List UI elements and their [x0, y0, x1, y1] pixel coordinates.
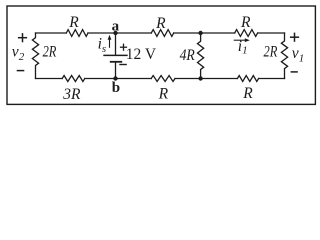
- wire R to bottom junction: [175, 78, 201, 80]
- wire R to top-right corner: [258, 32, 285, 34]
- svg-text:R: R: [155, 15, 166, 32]
- plus sign of v1: [290, 33, 299, 42]
- resistor R (bottom right): [237, 76, 258, 82]
- resistor R (top left): [66, 30, 88, 37]
- wire bottom junction to R (bottom right): [201, 78, 238, 80]
- wire bottom rail: left corner to 3R: [36, 78, 63, 80]
- svg-text:R: R: [242, 85, 253, 102]
- plus sign of v2: [18, 33, 27, 42]
- node b junction dot: [113, 76, 117, 80]
- resistor 2R (right branch with leads): [281, 33, 287, 79]
- wire top rail: left corner to R: [36, 32, 67, 34]
- resistor 4R (middle branch with leads): [198, 33, 204, 79]
- svg-text:R: R: [68, 14, 79, 31]
- wire R to bottom-right corner: [259, 78, 285, 80]
- wire R to node a: [88, 32, 116, 34]
- resistor R (top right): [235, 30, 258, 37]
- top junction dot: [198, 31, 202, 35]
- wire R to top junction: [174, 32, 201, 34]
- minus sign of battery: [119, 64, 127, 66]
- current arrow is (up): [108, 35, 112, 48]
- minus sign of v1: [291, 71, 298, 73]
- svg-text:4R: 4R: [180, 47, 196, 64]
- battery 12V top lead from node a: [115, 33, 117, 55]
- wire node b to R (bottom middle): [116, 78, 152, 80]
- svg-text:3R: 3R: [62, 86, 81, 103]
- svg-text:a: a: [112, 19, 120, 35]
- resistor 3R (bottom left): [62, 76, 85, 82]
- minus sign of v2: [17, 70, 25, 72]
- svg-text:R: R: [158, 86, 169, 103]
- resistor 2R (left branch with leads): [32, 33, 38, 79]
- node a junction dot: [113, 31, 117, 35]
- battery 12V long plate: [103, 54, 127, 56]
- current arrow i1 (right): [234, 38, 250, 42]
- svg-text:2R: 2R: [43, 43, 57, 60]
- bottom junction dot: [198, 76, 202, 80]
- battery 12V short plate: [110, 61, 122, 63]
- wire node a to R (top middle): [116, 32, 152, 34]
- svg-text:2R: 2R: [264, 43, 278, 60]
- wire 3R to node b: [85, 78, 116, 80]
- svg-text:b: b: [112, 80, 120, 96]
- svg-text:12 V: 12 V: [126, 46, 157, 63]
- resistor R (top middle): [151, 30, 173, 37]
- plus sign of battery: [120, 44, 127, 51]
- wire top junction to R (top right): [201, 32, 235, 34]
- svg-text:R: R: [240, 14, 251, 31]
- resistor R (bottom middle): [151, 76, 175, 82]
- battery 12V bottom lead to node b: [115, 62, 117, 79]
